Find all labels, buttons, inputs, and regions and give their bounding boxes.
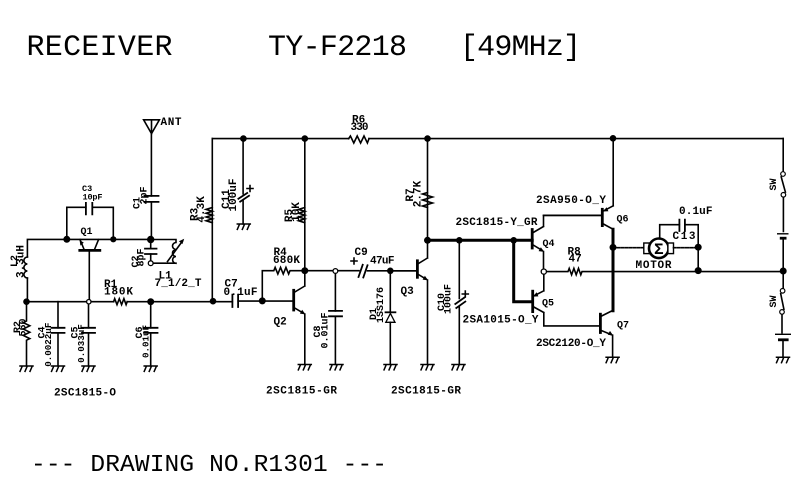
svg-text:8pF: 8pF xyxy=(137,248,148,266)
transistor Q7 xyxy=(600,311,629,357)
svg-text:2SC2120-O_Y: 2SC2120-O_Y xyxy=(536,338,606,350)
antenna ANT xyxy=(144,117,182,134)
resistor R6 xyxy=(349,115,369,144)
node motor left xyxy=(610,244,617,251)
node Q1 emitter xyxy=(110,236,116,242)
wire base line xyxy=(27,300,294,303)
node rail-C11 xyxy=(240,135,247,142)
ground Q3 emitter xyxy=(421,365,434,370)
resistor R4 xyxy=(262,247,305,301)
wire collector bus bold xyxy=(612,229,615,310)
wire motor to bus xyxy=(697,247,699,270)
svg-text:Σ: Σ xyxy=(654,241,664,259)
resistor R5 xyxy=(284,139,305,271)
node rail-R7 xyxy=(424,135,431,142)
ground C11 xyxy=(237,224,250,229)
ground C8 xyxy=(330,365,343,370)
ground Q2 emitter xyxy=(298,365,311,370)
svg-text:47uF: 47uF xyxy=(370,256,395,268)
svg-text:0.0022uF: 0.0022uF xyxy=(43,323,54,367)
svg-text:3.3uH: 3.3uH xyxy=(16,245,28,278)
open terminal Q4-Q5 emitters xyxy=(541,269,546,274)
open terminal L1 bottom xyxy=(148,261,153,266)
node battery mid xyxy=(780,268,787,275)
svg-text:1SS176: 1SS176 xyxy=(376,287,387,323)
node C10 top xyxy=(456,237,463,244)
ground battery xyxy=(777,357,790,362)
capacitor C3 xyxy=(67,184,114,240)
resistor R3 xyxy=(189,139,212,302)
svg-text:--- DRAWING NO.R1301 ---: --- DRAWING NO.R1301 --- xyxy=(31,452,387,479)
svg-text:330: 330 xyxy=(351,122,369,134)
inductor L1 xyxy=(151,239,202,290)
capacitor C8 xyxy=(313,271,342,365)
node Q2 collector xyxy=(301,267,308,274)
svg-text:Q2: Q2 xyxy=(274,317,287,329)
svg-text:Q5: Q5 xyxy=(542,299,554,310)
svg-text:180K: 180K xyxy=(104,287,133,299)
motor M1 xyxy=(613,239,698,273)
svg-text:C13: C13 xyxy=(673,231,696,243)
node rail-Q6 xyxy=(610,135,617,142)
node D1 xyxy=(387,268,394,275)
svg-text:Q3: Q3 xyxy=(401,286,415,298)
capacitor C10 xyxy=(437,240,468,364)
wire tuned-input top xyxy=(27,239,150,301)
svg-text:47: 47 xyxy=(569,254,582,266)
node motor right xyxy=(695,244,702,251)
svg-text:Q7: Q7 xyxy=(617,321,629,332)
svg-text:2SA950-O_Y: 2SA950-O_Y xyxy=(536,195,606,207)
capacitor C13 xyxy=(660,206,713,247)
node Q5 base drop xyxy=(510,237,517,244)
node Q2 base xyxy=(259,297,266,304)
wire driver bold xyxy=(428,239,533,242)
svg-text:0.033uF: 0.033uF xyxy=(76,324,87,363)
node rail-R5 xyxy=(302,135,309,142)
transistor Q6 xyxy=(544,139,629,230)
capacitor C9 xyxy=(351,247,395,278)
svg-text:4.3K: 4.3K xyxy=(196,196,208,223)
svg-text:Q4: Q4 xyxy=(543,239,555,250)
svg-text:C9: C9 xyxy=(355,247,368,259)
node L2-R2 xyxy=(23,298,30,305)
svg-text:Q6: Q6 xyxy=(617,215,629,226)
switch SW2 xyxy=(769,289,785,315)
battery B1 xyxy=(777,234,789,238)
svg-text:680K: 680K xyxy=(273,255,300,267)
battery B2 xyxy=(775,334,791,340)
node C13 bottom xyxy=(695,267,702,274)
svg-text:2pF: 2pF xyxy=(140,186,151,204)
ground R2 xyxy=(20,366,33,371)
svg-text:0.01uF: 0.01uF xyxy=(320,312,331,348)
svg-text:Q1: Q1 xyxy=(81,227,93,238)
svg-text:10pF: 10pF xyxy=(83,192,103,202)
resistor R7 xyxy=(405,139,432,241)
capacitor C7 xyxy=(224,279,258,308)
ground C5 xyxy=(82,366,95,371)
transistor Q4 xyxy=(532,216,602,272)
node tank top xyxy=(147,236,154,243)
capacitor C4 xyxy=(38,302,65,367)
svg-text:560: 560 xyxy=(18,318,29,336)
svg-text:SW: SW xyxy=(769,178,780,190)
svg-text:2SC1815-Y_GR: 2SC1815-Y_GR xyxy=(456,217,538,229)
svg-text:[49MHz]: [49MHz] xyxy=(460,31,581,65)
capacitor C5 xyxy=(71,302,95,366)
node Q1 collector xyxy=(63,236,70,243)
svg-text:MOTOR: MOTOR xyxy=(636,260,672,272)
open terminal Q1 base xyxy=(87,300,91,304)
svg-text:10K: 10K xyxy=(291,202,303,222)
transistor Q2 xyxy=(274,271,306,365)
wire top supply rail xyxy=(212,138,783,140)
capacitor C6 xyxy=(135,302,157,366)
open terminal C8 top xyxy=(333,269,338,274)
node R7 bottom xyxy=(424,237,431,244)
ground C4 xyxy=(52,366,65,371)
ground Q7 emitter xyxy=(606,357,619,362)
svg-text:2SC1815-O: 2SC1815-O xyxy=(54,388,116,400)
capacitor C2 xyxy=(131,240,156,268)
ground C10 xyxy=(452,365,465,370)
node C2-C6 xyxy=(147,298,154,305)
transistor Q5 xyxy=(514,240,601,326)
diode D1 xyxy=(369,271,396,365)
ground D1 xyxy=(384,365,397,370)
switch SW1 xyxy=(769,172,786,197)
svg-text:ANT: ANT xyxy=(161,117,182,129)
svg-text:2SC1815-GR: 2SC1815-GR xyxy=(266,386,337,398)
svg-text:RECEIVER: RECEIVER xyxy=(27,31,173,65)
svg-text:2SA1015-O_Y: 2SA1015-O_Y xyxy=(463,315,539,327)
ground C6 xyxy=(144,366,157,371)
capacitor C11 xyxy=(221,139,253,224)
svg-text:7_1/2_T: 7_1/2_T xyxy=(155,278,202,290)
wire battery rail right xyxy=(782,139,783,358)
transistor Q3 xyxy=(390,240,428,364)
inductor L2 xyxy=(10,245,28,278)
node R3 bottom xyxy=(210,298,217,305)
svg-text:0.01uF: 0.01uF xyxy=(140,325,151,358)
svg-text:TY-F2218: TY-F2218 xyxy=(268,31,407,65)
svg-text:2SC1815-GR: 2SC1815-GR xyxy=(391,386,461,398)
svg-text:SW: SW xyxy=(769,295,780,307)
transistor Q1 xyxy=(80,227,100,302)
resistor R1 xyxy=(104,279,133,305)
svg-text:100uF: 100uF xyxy=(228,178,240,211)
resistor R2 xyxy=(13,302,30,366)
svg-text:100uF: 100uF xyxy=(444,284,455,314)
svg-text:2.7K: 2.7K xyxy=(413,180,425,207)
capacitor C1 xyxy=(133,134,159,240)
resistor R8 xyxy=(544,247,783,275)
svg-text:0.1uF: 0.1uF xyxy=(224,287,258,299)
svg-text:0.1uF: 0.1uF xyxy=(679,206,713,218)
wire interstage xyxy=(305,270,418,272)
